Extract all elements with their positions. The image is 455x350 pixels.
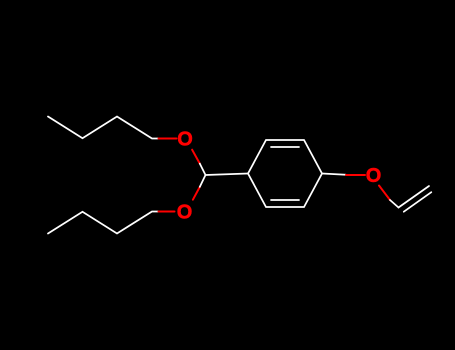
- vinyl C=C double bond main line: [399, 186, 430, 208]
- benzene ring: [248, 140, 322, 207]
- wire O(top)-CH white half-bond: [200, 164, 206, 175]
- wire O(top)-CH red half-bond: [192, 150, 200, 164]
- wire bottom C4-O red half-bond: [159, 211, 175, 213]
- wire ring-O red half-bond: [346, 174, 365, 176]
- wire O(bottom)-CH red half-bond: [193, 187, 200, 200]
- wire O(bottom)-CH white half-bond: [200, 175, 206, 187]
- vinyl C=C double bond second line: [404, 192, 432, 212]
- wire O(right)-CH red half-bond: [379, 186, 390, 201]
- double bond inner line top: [271, 146, 299, 148]
- wire ring-O white half-bond: [322, 174, 346, 175]
- double bond inner line bottom: [271, 199, 299, 201]
- wire CH-ring bond: [206, 174, 249, 176]
- svg-text:O: O: [366, 165, 382, 187]
- wire top butyl chain (white bonds): [48, 117, 159, 139]
- wire top C4-O red half-bond: [159, 138, 177, 140]
- wire O(right)-CH white half-bond: [390, 200, 399, 208]
- wire bottom butyl chain (white bonds): [48, 212, 159, 234]
- svg-text:O: O: [177, 202, 193, 224]
- svg-text:O: O: [177, 129, 193, 151]
